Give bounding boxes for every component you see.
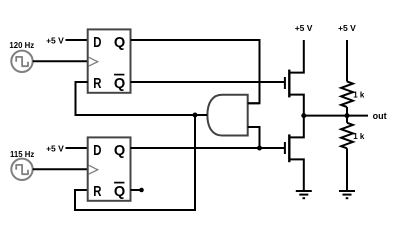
wire AND bottom input stub to U2 Q wire	[248, 127, 260, 148]
terminal dot U2 Qbar	[139, 188, 144, 193]
MOSFET Q2	[285, 116, 304, 191]
svg-text:D: D	[93, 35, 101, 51]
svg-text:R: R	[93, 76, 102, 92]
svg-text:Q: Q	[114, 143, 125, 159]
MOSFET Q1	[285, 40, 304, 116]
wire U1 R feedback from reset node	[76, 82, 196, 115]
junction dot reset node	[193, 113, 198, 118]
wire U2 Qbar stub	[131, 189, 142, 191]
svg-text:Q: Q	[114, 184, 125, 200]
square-wave source V1 (120 Hz)	[11, 51, 32, 72]
svg-text:+5 V: +5 V	[46, 143, 64, 153]
D flip-flop U2	[88, 137, 131, 200]
wire V1 to U1 clock	[33, 60, 88, 62]
svg-text:115 Hz: 115 Hz	[10, 150, 34, 159]
wire AND top input stub	[248, 102, 260, 104]
wire V2 to U2 clock	[33, 168, 88, 170]
D flip-flop U1	[88, 29, 131, 92]
ground at R2	[339, 191, 355, 198]
svg-text:Q: Q	[114, 35, 125, 51]
wire reset node to U2 R	[75, 115, 195, 210]
svg-text:+5 V: +5 V	[46, 35, 64, 45]
svg-text:1 k: 1 k	[353, 132, 365, 141]
svg-text:Q: Q	[114, 76, 125, 92]
wire +5V to U2 D input	[66, 147, 88, 149]
junction dot out node	[301, 113, 306, 118]
svg-text:+5 V: +5 V	[295, 23, 313, 33]
wire U2 Q to Q2 gate	[131, 147, 285, 149]
wire +5V to U1 D input	[66, 39, 88, 41]
wire R1 to out node	[346, 107, 348, 116]
junction dot R1/R2/out	[345, 113, 350, 118]
svg-text:out: out	[373, 111, 387, 121]
wire U1 Qbar to Q1 gate	[131, 81, 285, 83]
wire out node	[304, 115, 368, 117]
wire AND output to reset node	[195, 114, 207, 116]
resistor R1 (1 k)	[341, 82, 353, 108]
svg-text:D: D	[93, 143, 101, 159]
svg-text:1 k: 1 k	[353, 91, 365, 100]
junction dot U2 Q / AND input	[257, 146, 262, 151]
svg-text:120 Hz: 120 Hz	[9, 41, 34, 50]
wire U1 Q to AND top input	[131, 40, 260, 103]
wire +5V to R1	[346, 40, 348, 82]
ground at Q2 source	[296, 191, 312, 198]
AND gate U3 (mirrored, inputs on right)	[207, 95, 247, 136]
resistor R2 (1 k)	[341, 116, 353, 191]
svg-text:+5 V: +5 V	[338, 23, 356, 33]
square-wave source V2 (115 Hz)	[11, 159, 32, 180]
svg-text:R: R	[93, 184, 102, 200]
